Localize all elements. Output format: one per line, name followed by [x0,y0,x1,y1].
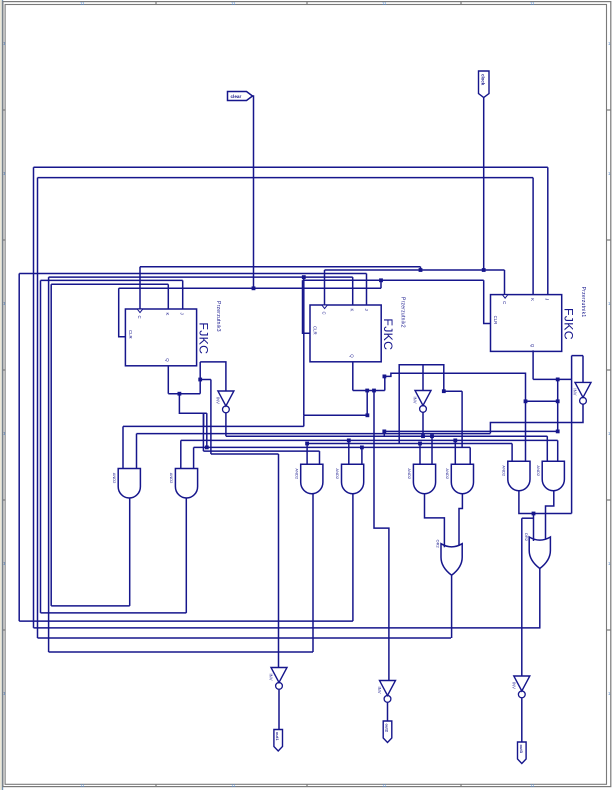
wire J net U1 top [34,166,548,168]
svg-text:AND2: AND2 [294,468,299,479]
wire Q drop U2 a [366,391,368,416]
wire Q net U1 [533,378,572,380]
wire K pin U1 [532,178,534,295]
wire Q drop U2 b to inverter N5 [374,391,389,681]
wire J net U3 [41,279,183,281]
wire K net U1 top [38,177,534,179]
svg-text:J: J [364,309,369,311]
svg-text:CLR: CLR [313,326,318,335]
wire bus B4 [123,425,304,427]
border zone divider [607,369,611,371]
wire output inverter N4 [278,690,280,730]
wire input A1 right [136,434,138,469]
wire Q drop U3 b [203,413,205,426]
wire feedback column d [40,280,42,613]
AND gate A1 [118,469,140,499]
wire feedback rail d [41,612,187,614]
inverter N1 bubble [580,397,587,404]
wire J pin U3 [182,280,184,309]
AND gate A6 [451,464,473,493]
svg-text:AND2: AND2 [445,468,450,479]
svg-text:OR2: OR2 [436,540,441,549]
inverter N5 [380,681,396,696]
svg-text:AND2: AND2 [335,468,340,479]
wire output inverter N1 [490,404,583,433]
AND gate A8 [542,461,564,490]
left page edge strip [0,0,2,790]
wire feedback column g [50,284,52,606]
svg-text:11: 11 [80,1,85,6]
AND gate A4 [342,464,364,493]
wire bus B8 [181,439,558,441]
wire J pin U1 [547,167,549,294]
border zone divider [607,239,611,241]
wire C pin U2 [324,270,326,305]
wire K net U3 [51,283,168,285]
wire Q net U3 [168,393,200,395]
svg-text:INV: INV [573,388,578,395]
wire Q branch U1 [526,400,558,402]
svg-text:11: 11 [382,783,387,788]
svg-text:AND2: AND2 [112,473,117,484]
wire output inverter N6 [521,698,523,742]
wire input A1 left [122,426,124,468]
svg-text:AND2: AND2 [169,473,174,484]
border zone divider [306,2,308,5]
wire feedback column c [37,178,39,638]
wire CLR pin U3 [119,288,126,336]
junction bus B1 [366,413,370,417]
svg-text:INV: INV [215,397,220,404]
inverter N3 bubble [223,406,230,413]
wire Q drop U3 a [202,413,204,451]
flip-flop U3 clock caret [137,309,143,313]
wire feedback column a [18,274,20,622]
wire output A8 to OR2 [546,491,554,539]
wire Q pin U1 [532,350,534,379]
flip-flop U1 body [491,295,562,352]
svg-text:K: K [530,298,535,301]
wire bus B5 stub [383,431,385,436]
border zone divider [3,109,6,111]
svg-text:FJKC: FJKC [197,322,211,354]
svg-text:J: J [545,298,550,300]
flip-flop U1 clock caret [502,295,508,299]
wire output A4 [352,494,354,621]
inverter N4 bubble [276,683,283,690]
svg-text:out2: out2 [385,724,390,733]
wire clock port drop [483,98,485,271]
wire C pin U3 [139,267,141,309]
wire output A2 [185,498,187,613]
junction K net U2 [302,275,306,279]
wire clear bus U3 [119,287,381,289]
svg-text:CLR: CLR [128,330,133,339]
junction clock step [419,268,423,272]
wire bus B11 [203,450,319,452]
wire Q drop U1 to bus [557,379,559,431]
wire feedback rail g [51,605,130,607]
wire input inverter N4 [278,454,280,668]
junction bus B5 [382,430,386,434]
border zone divider [3,369,6,371]
svg-text:AND2: AND2 [502,465,507,476]
wire input inverter N1 [582,356,584,383]
wire feedback rail c [38,637,452,639]
border zone divider [306,784,308,786]
svg-text:Przerzutnik2: Przerzutnik2 [400,297,406,328]
port out2 [383,721,392,743]
wire inverter N2 loop [399,365,444,444]
svg-text:OR2: OR2 [524,533,529,542]
wire CLR pin U1 [484,280,491,323]
svg-text:out1: out1 [275,732,280,741]
svg-text:INV: INV [413,397,418,404]
AND gate A5 [413,464,435,493]
wire input inverter N1 riser [571,356,573,380]
wire J net U2 [19,273,366,275]
OR gate O1 [441,544,462,576]
svg-text:AND2: AND2 [536,465,541,476]
wire input A5 right [431,436,433,464]
wire N2 branch drop [461,391,463,447]
wire input inverter N3 [200,362,226,391]
wire clock bus step [420,267,422,270]
svg-text:clear: clear [231,94,242,99]
inverter N3 [218,391,234,406]
svg-text:AND2: AND2 [407,468,412,479]
junction OR2 left input [532,512,536,516]
junction Q net U2 a [365,389,369,393]
port out1 [274,730,283,752]
inverter N4 [271,668,287,683]
wire clear bus U2-U1 [303,279,484,281]
svg-text:C: C [137,316,142,319]
wire output inverter N5 [387,703,389,721]
inverter N6 bubble [518,691,525,698]
wire output O1 [451,575,453,638]
inverter N5 bubble [384,696,391,703]
border zone divider [3,499,6,501]
wire output A1 [129,498,131,606]
wire bus B9 [307,443,512,445]
wire output A6 to OR1 [459,494,462,546]
border zone divider [3,629,6,631]
wire clear port drop [253,96,254,288]
junction Q net U3 [178,392,182,396]
wire input A4 right [361,447,363,464]
junction bus B8 b [453,439,457,443]
border zone divider [155,784,157,786]
wire bus B1 [304,414,368,416]
junction bus B8 a [347,439,351,443]
wire bus B1 step [303,415,305,426]
wire output A7 to Q1 rail [519,491,572,514]
wire Q zigzag U2 to A7 right input [384,373,525,461]
wire feedback column b [33,167,35,628]
port clock [479,71,490,98]
wire output inverter N3 [225,413,227,437]
junction clock port [482,268,486,272]
wire input A2 left [180,440,182,468]
junction Q riser U2 [383,375,387,379]
wire Q drop U3 c [206,413,208,447]
left page edge blue line [2,0,3,790]
junction clear port [252,286,256,290]
svg-text:11: 11 [382,1,387,6]
svg-text:K: K [350,309,355,312]
AND gate A3 [301,464,323,493]
svg-text:11: 11 [530,1,535,6]
wire input A3 left [306,444,308,465]
junction bus B10 a [360,446,364,450]
AND gate A2 [175,469,197,499]
wire bus B6 [137,433,491,435]
junction Q drop U1 [556,399,560,403]
svg-text:J: J [180,313,185,315]
wire input A4 left [348,440,350,464]
wire K pin U2 [352,277,354,305]
wire bus B5 [384,430,557,432]
wire feedback rail a [19,620,353,622]
inverter N2 bubble [420,406,427,413]
wire output inverter N2 [422,413,424,437]
svg-text:FJKC: FJKC [381,318,395,350]
wire C pin U1 [504,270,506,295]
wire input A3 right [319,451,321,464]
border zone divider [155,2,157,5]
junction bus B10 [205,446,209,450]
junction Q net U1 [556,378,560,382]
wire Q pin U3 [167,366,169,394]
flip-flop U3 body [125,309,196,366]
junction Q net U2 b [372,389,376,393]
inverter N6 [514,676,530,691]
wire Q drop U1 long [571,379,573,513]
wire output A5 to OR1 [425,494,445,548]
wire input A7 left [511,444,513,462]
wire N2 branch [444,390,462,392]
junction bus B9 b [418,442,422,446]
wire output O2 [539,569,541,628]
border zone divider [3,239,6,241]
wire input inverter N6 long [521,518,523,676]
wire bus B7 [226,435,547,437]
svg-text:Przerzutnik1: Przerzutnik1 [580,287,586,318]
wire input A6 right [469,447,471,464]
svg-text:C: C [322,312,327,315]
junction bus B9 a [305,442,309,446]
wire input inverter N1 top [572,355,583,357]
inverter N1 [575,382,591,397]
wire Q riser U2 [384,376,386,390]
svg-text:11: 11 [80,783,85,788]
svg-text:out3: out3 [519,745,524,754]
wire clock bus upper [140,266,421,268]
wire input A5 left [419,444,421,465]
border zone divider [607,499,611,501]
wire J pin U2 [366,274,368,306]
wire Q pin U2 [352,362,354,391]
junction A7 right feed [524,399,528,403]
wire inverter N6 tap link [522,517,534,519]
border zone divider [607,109,611,111]
wire K pin U3 [167,284,169,309]
svg-text:K: K [165,313,170,316]
wire feedback rail b [34,627,541,629]
flip-flop U2 body [310,305,381,362]
wire input inverter N2 [422,365,424,391]
wire bus B12 [211,453,279,455]
svg-text:11: 11 [530,783,535,788]
svg-text:INV: INV [269,674,274,681]
wire Q drop U3 d [210,380,212,455]
flip-flop U2 clock caret [322,305,328,309]
svg-text:11: 11 [231,783,236,788]
svg-text:C: C [502,301,507,304]
svg-text:CLR: CLR [493,316,498,325]
wire Q net U2 [353,390,385,392]
wire K net U2 [49,276,353,278]
junction bus B7 [430,434,434,438]
wire input OR2 left [533,514,535,542]
junction Q riser U3 [198,378,202,382]
wire feedback column f [48,277,50,652]
wire output A3 [312,494,314,652]
wire Q branch U3 d [200,379,211,381]
svg-text:INV: INV [511,682,516,689]
AND gate A7 [508,461,530,490]
wire CLR pin U2 [303,280,311,333]
wire input A8 right [557,440,559,461]
OR gate O2 [529,537,550,569]
wire feedback rail f [49,651,313,653]
wire bus B10 [194,446,471,448]
wire clock bus lower [325,269,505,271]
border zone divider [460,2,462,5]
wire Q branch U3 [179,394,206,414]
junction bus B5 right [556,430,560,434]
junction output N2 [421,434,425,438]
inverter N2 [415,391,431,406]
port out3 [518,742,527,764]
wire clear riser [380,280,382,288]
svg-text:INV: INV [377,687,382,694]
border zone divider [607,629,611,631]
junction clear bus [379,278,383,282]
wire Q to inverter N3 [199,362,201,394]
svg-text:clock: clock [481,74,486,86]
wire K feedback drop U2 [303,277,305,415]
border zone divider [460,784,462,786]
svg-text:Przerzutnik3: Przerzutnik3 [215,301,221,332]
port clear [228,92,253,101]
svg-text:11: 11 [231,1,236,6]
wire input A6 left [454,440,456,464]
wire input A2 right [193,447,195,468]
svg-text:FJKC: FJKC [562,308,576,340]
junction N2 loop [442,389,446,393]
wire input A8 left [546,436,548,461]
